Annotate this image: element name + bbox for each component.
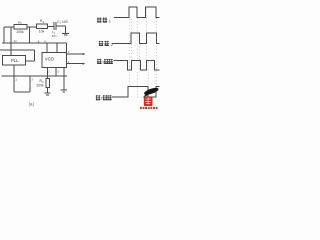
svg-text:2: 2 bbox=[101, 97, 103, 101]
svg-text:100k: 100k bbox=[16, 30, 24, 34]
svg-text:3: 3 bbox=[102, 61, 104, 65]
svg-text:14: 14 bbox=[14, 39, 18, 43]
svg-text:10n: 10n bbox=[52, 34, 57, 38]
svg-text:100k: 100k bbox=[36, 84, 44, 88]
svg-text:VCO: VCO bbox=[45, 57, 55, 62]
svg-text:100: 100 bbox=[62, 20, 68, 24]
svg-text:10k: 10k bbox=[39, 29, 45, 33]
svg-text:(a): (a) bbox=[29, 102, 35, 107]
svg-text:PLL: PLL bbox=[11, 58, 19, 63]
